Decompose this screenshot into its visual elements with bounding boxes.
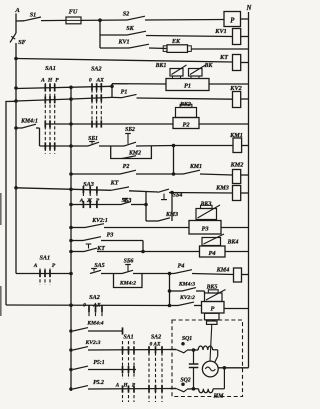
svg-text:Р5.2: Р5.2	[93, 380, 104, 386]
wire SB1 to SB2	[99, 145, 124, 147]
junction mid-bus P5:1	[70, 368, 73, 371]
SA2 bottom marks	[148, 346, 150, 353]
svg-text:ВК5: ВК5	[206, 285, 218, 291]
contact KT delayed	[88, 244, 90, 249]
junction capacitor top	[192, 349, 195, 352]
contact KM3 selfhold	[158, 218, 170, 221]
button SB1	[89, 141, 95, 143]
wire KM3 coil to bus N	[241, 192, 249, 194]
wire SB2 to junction	[136, 145, 174, 148]
wire SK to coil KV1	[146, 36, 233, 37]
contact P5:2	[73, 386, 88, 389]
thermal sensor VK2	[176, 108, 197, 118]
svg-text:SА2: SА2	[91, 66, 102, 73]
svg-text:Р: Р	[52, 263, 56, 269]
sensor VK legs	[190, 76, 192, 79]
wire KV2:2 to P5 box	[170, 305, 179, 307]
wire P3 contact to corner	[101, 240, 143, 242]
vertical feeder x100	[99, 20, 101, 48]
wire SQ1 to winding	[170, 349, 176, 351]
vertical link x146	[145, 192, 147, 221]
selector SA1 bottom columns	[122, 341, 124, 402]
contact KM4:4	[73, 328, 88, 331]
wire SA5 to SB6	[101, 273, 122, 275]
SA2 mid marks	[88, 305, 90, 312]
contact P4	[174, 270, 192, 274]
contact P2	[120, 170, 136, 174]
corner P3 down	[142, 241, 144, 252]
svg-text:А: А	[33, 263, 38, 269]
junction row2 on bus A	[15, 100, 18, 103]
relay box P1	[166, 79, 209, 91]
svg-text:КV1: КV1	[117, 40, 129, 46]
SA2 marks row2	[91, 95, 93, 102]
wire SB6 to P4 contact	[133, 273, 174, 275]
svg-text:SА1: SА1	[45, 65, 56, 72]
svg-text:ВК1: ВК1	[155, 63, 167, 69]
svg-text:КМ3: КМ3	[215, 185, 229, 192]
svg-text:А: А	[14, 7, 20, 14]
selector SA1 lower columns	[39, 269, 41, 286]
button SB2	[125, 133, 131, 135]
svg-text:SА1: SА1	[39, 255, 50, 262]
junction SA3 row on bus A	[15, 187, 18, 190]
svg-text:SQ1: SQ1	[182, 336, 192, 342]
selector SA1 bottom letters	[113, 379, 137, 387]
switch S1	[16, 20, 24, 22]
heater EK	[167, 45, 188, 53]
junction mid-bus SA3 row	[70, 188, 73, 191]
wire EK to bus N	[191, 48, 248, 50]
wire SK row	[100, 34, 127, 36]
wire KT coil to bus N	[241, 62, 249, 64]
svg-text:0: 0	[83, 302, 86, 308]
svg-text:КМ4:1: КМ4:1	[20, 119, 38, 125]
selector SA1 columns	[44, 83, 46, 154]
svg-text:КV2:3: КV2:3	[85, 340, 101, 346]
svg-text:SБ4: SБ4	[173, 193, 183, 199]
SA1 marks row1	[44, 84, 46, 91]
wire S1 to FU	[41, 19, 66, 21]
svg-text:КМ1: КМ1	[189, 164, 202, 170]
junction mid-bus row1	[70, 86, 73, 89]
coil KV1	[233, 29, 241, 45]
junction x112	[111, 85, 114, 88]
svg-text:АХ: АХ	[95, 78, 104, 84]
junction mid-bus row2	[70, 98, 73, 101]
wire row P4 box feed	[71, 251, 84, 253]
svg-text:ИМ: ИМ	[212, 394, 224, 400]
wire row P3 contact	[71, 240, 83, 242]
contact KM4:1	[16, 127, 22, 129]
svg-text:N: N	[246, 5, 253, 12]
bus A vertical	[15, 14, 17, 34]
wire P5 box to bus N	[224, 308, 249, 310]
motor winding lower	[199, 389, 213, 393]
junction x172	[171, 191, 174, 194]
junction mid-bus KM4 row	[70, 272, 73, 275]
wire KM3 selfhold branch	[146, 220, 158, 222]
contact P1	[112, 96, 121, 98]
motor M circle	[202, 361, 218, 377]
SA3 marks row2	[82, 201, 84, 208]
wire P4 contact to coil KM4	[192, 274, 234, 275]
wire row KM1 through SA1	[40, 145, 89, 147]
corner KM4:1 down	[39, 128, 41, 146]
junction mid-bus KM4:4	[70, 330, 73, 333]
relay box P5	[202, 302, 225, 314]
wire KV1 coil to bus N	[241, 36, 249, 38]
selector SA3 letters	[79, 196, 100, 203]
switch S2	[127, 16, 145, 20]
junction KM4:1 on bus A	[15, 127, 18, 130]
coil KT	[233, 55, 241, 71]
sensor VK1 legs	[172, 76, 174, 79]
junction mid-bus row3	[70, 123, 73, 126]
vertical link x112	[111, 84, 113, 98]
wire row P2 feed from SA1	[45, 123, 173, 125]
contact KT	[111, 187, 129, 190]
wire KM4:3 branch	[170, 290, 183, 292]
wire to coil KM1	[174, 145, 234, 147]
wire P4 box to bus N	[225, 251, 249, 253]
SA1 marks row3	[44, 120, 46, 127]
limit switch SQ1	[182, 343, 185, 346]
wire P5:2 row to SQ2	[88, 388, 176, 391]
junction winding to bus wire	[223, 367, 226, 370]
svg-text:Р2: Р2	[123, 164, 130, 170]
vertical link x172 branch	[171, 193, 173, 222]
wire S2 to relay P	[145, 19, 224, 22]
junction x143	[142, 250, 145, 253]
thermal sensor VK3	[196, 209, 217, 220]
junction x173.5	[172, 144, 175, 147]
svg-text:SА2: SА2	[151, 335, 161, 341]
svg-text:Р: Р	[211, 306, 215, 313]
button SA5	[91, 268, 97, 270]
wire KM1 contact to coil KM2	[200, 174, 233, 175]
svg-text:Р3: Р3	[107, 233, 114, 239]
relay box P2	[173, 118, 199, 129]
junction riser top	[168, 272, 171, 275]
junction mid-bus KV2:1 row	[70, 226, 73, 229]
svg-text:КV2:2: КV2:2	[179, 295, 195, 301]
capacitor branch	[193, 350, 195, 364]
svg-text:SА3: SА3	[83, 181, 94, 188]
svg-text:ВК: ВК	[204, 63, 214, 69]
selector SA2 columns	[91, 84, 93, 127]
junction mid-bus P3 row	[70, 239, 73, 242]
wire P1 contact to coil KV2	[137, 98, 233, 99]
SA1 bottom marks	[122, 346, 124, 353]
wire SB3 row through SA3	[82, 204, 100, 206]
link rect under P5	[205, 313, 220, 320]
svg-text:КМ2: КМ2	[230, 162, 244, 169]
wire KV2:1 to P3 box	[104, 227, 189, 229]
svg-text:FU: FU	[69, 9, 78, 16]
selector SA2 mid columns	[88, 308, 90, 318]
motor sine symbol	[205, 367, 215, 371]
svg-text:SБ2: SБ2	[125, 127, 135, 133]
wire row through SA1 SA2 to x112	[16, 86, 112, 88]
svg-text:SБ6: SБ6	[124, 259, 134, 265]
svg-text:А: А	[40, 78, 45, 84]
contact KM2 selfhold branch	[111, 146, 152, 159]
scan edge artifact left	[0, 193, 2, 225]
contact KV2:3	[73, 347, 88, 350]
coil KM4	[234, 268, 242, 282]
relay box P3	[189, 221, 221, 235]
svg-text:АХ: АХ	[92, 302, 101, 308]
wire row KM3 feed	[16, 188, 111, 191]
junction KT feed on bus A	[15, 57, 18, 60]
wire FU to junction	[81, 19, 127, 21]
wire KM2 coil to bus N	[241, 174, 249, 176]
svg-text:Р4: Р4	[208, 250, 215, 257]
relay P box	[224, 12, 241, 27]
thermal sensor VK4	[202, 238, 221, 246]
wire row P3 box feed	[71, 227, 85, 229]
wire bus N to motor	[218, 367, 248, 369]
junction mid-bus KT row	[70, 250, 73, 253]
button SB6	[125, 264, 131, 266]
junction mid-bus bottom row	[70, 304, 73, 307]
vertical link x173.5	[173, 146, 175, 175]
mechanical link line	[210, 324, 212, 361]
SA1 marks row2	[44, 96, 46, 103]
junction x100 top	[99, 19, 102, 22]
junction capacitor bottom	[192, 388, 195, 391]
wire KV2 coil to bus N	[241, 98, 249, 100]
svg-text:SБ1: SБ1	[88, 136, 98, 142]
wire KV2:3 row to SQ1	[88, 349, 176, 352]
svg-text:КТ: КТ	[110, 181, 119, 187]
contact KV1	[129, 44, 149, 48]
wire row KM2 coil feed	[71, 173, 120, 175]
svg-text:КТ: КТ	[219, 54, 228, 61]
button SB4	[161, 199, 167, 201]
svg-text:S1: S1	[30, 12, 37, 19]
SA1c mark row1	[122, 327, 124, 334]
SA2 marks row3	[91, 120, 93, 127]
blade KM2 selfhold	[122, 156, 136, 159]
wire SB4 to coil KM3	[169, 192, 233, 195]
wire SB3 to corner	[131, 204, 146, 206]
selector SA2 bottom columns	[148, 347, 150, 402]
svg-text:Р5:1: Р5:1	[93, 360, 104, 366]
wire P5:1 row	[88, 369, 136, 371]
junction row P1feed on bus A	[15, 87, 18, 90]
wire KT contact to SB4	[129, 191, 158, 192]
branch riser x169.5	[169, 274, 171, 306]
thermal sensor VK1	[170, 69, 183, 77]
svg-text:SА1: SА1	[123, 335, 133, 341]
svg-text:Р1: Р1	[121, 90, 128, 96]
wire row KM4 feed from bus A	[16, 273, 71, 275]
wire P3 box to bus N	[221, 227, 249, 229]
svg-text:Р3: Р3	[201, 226, 209, 233]
svg-text:SБ3: SБ3	[122, 198, 132, 204]
motor winding upper	[198, 346, 212, 350]
svg-text:Н: Н	[47, 78, 53, 84]
junction riser KM4:3	[168, 290, 171, 293]
SA1 lower marks	[39, 270, 41, 277]
svg-text:Р1: Р1	[184, 83, 191, 90]
svg-text:SК: SК	[126, 26, 134, 32]
svg-text:КV2: КV2	[229, 85, 241, 92]
thermal sensor VK5	[205, 293, 223, 302]
coil KM2	[233, 170, 241, 184]
breaker SF	[10, 33, 16, 43]
svg-text:КМ4:2: КМ4:2	[119, 281, 136, 287]
svg-text:ВК2: ВК2	[179, 102, 191, 108]
limit switch SQ2	[182, 383, 185, 386]
coil KM1	[233, 138, 242, 153]
svg-text:Р2: Р2	[182, 121, 190, 128]
contact P3	[83, 237, 101, 241]
contact P5:1	[73, 366, 88, 369]
contact KM4:2 selfhold branch	[114, 274, 143, 288]
coil KM3	[233, 186, 241, 201]
wire KM1 coil to bus N	[242, 145, 249, 147]
wire SQ2 to winding	[170, 388, 176, 390]
wire P to bus N	[241, 18, 249, 20]
junction x146	[145, 203, 148, 206]
svg-text:SА2: SА2	[89, 294, 100, 301]
button SB3	[122, 198, 128, 200]
wire KM4:4 row	[88, 330, 123, 332]
wire to heater EK	[149, 47, 167, 50]
junction riser bottom	[168, 304, 171, 307]
svg-text:Р4: Р4	[178, 264, 185, 270]
junction mid-bus SB3 row	[70, 203, 73, 206]
coil KV2	[233, 92, 241, 108]
svg-text:ВК3: ВК3	[200, 202, 212, 208]
svg-text:КМ4:3: КМ4:3	[178, 282, 195, 288]
contact SK	[127, 31, 146, 35]
bus N vertical	[248, 12, 250, 368]
svg-text:КМ1: КМ1	[229, 132, 243, 139]
selector SA3 columns	[82, 188, 84, 208]
svg-text:КМ4: КМ4	[216, 267, 230, 274]
wire x112 to P1 box	[112, 83, 166, 85]
relay box P4	[200, 246, 226, 257]
svg-text:ВК4: ВК4	[227, 240, 239, 246]
wire P1 box to bus N	[209, 83, 249, 85]
svg-text:КV2:1: КV2:1	[91, 218, 108, 224]
svg-text:Р: Р	[230, 18, 235, 25]
wire long KT feed row	[16, 59, 233, 63]
junction mid-bus row4	[70, 145, 73, 148]
contact KV2:2	[178, 302, 194, 305]
svg-text:0: 0	[89, 78, 92, 84]
wire KV1 contact row	[100, 47, 129, 49]
wire KM4 coil to bus N	[242, 274, 249, 276]
wire row SB3	[71, 204, 82, 206]
wire P2 box to bus N	[199, 123, 249, 125]
contact KM1	[183, 170, 200, 174]
junction mid-bus P5:2	[70, 388, 73, 391]
junction mid-bus row KM2	[70, 173, 73, 176]
SA2 marks row1	[91, 83, 93, 90]
svg-text:SА5: SА5	[94, 263, 104, 269]
actuator IM dashed box	[172, 320, 243, 397]
svg-text:S2: S2	[123, 11, 130, 18]
svg-text:Р: Р	[55, 78, 59, 84]
fuse FU	[66, 17, 81, 24]
corner left branch	[6, 101, 16, 305]
svg-text:SF: SF	[18, 39, 26, 46]
junction x173.5 low	[172, 173, 175, 176]
svg-text:ЕК: ЕК	[171, 39, 181, 45]
SA3 marks row1	[82, 186, 84, 193]
svg-text:А: А	[115, 383, 120, 389]
wire P2 to KM1 contact	[136, 173, 183, 175]
svg-text:SQ2: SQ2	[180, 378, 190, 384]
capacitor C	[189, 363, 199, 365]
wire KT delayed to P4 box	[97, 251, 200, 253]
contact KM4:3	[182, 288, 196, 291]
SA1 marks row4	[44, 142, 46, 149]
svg-text:КМ4:4: КМ4:4	[86, 321, 103, 327]
wire KM4:3 to sensor VK5	[196, 290, 205, 292]
svg-text:КV1: КV1	[214, 28, 226, 35]
contact KV2:1	[85, 224, 104, 228]
wire bottom feed row	[6, 304, 170, 307]
thermal sensor VK	[189, 69, 203, 77]
junction mid-bus KV2:3	[70, 349, 73, 352]
wire row2 through SA1 SA2	[16, 99, 72, 101]
mid bus vertical x71	[70, 88, 72, 392]
